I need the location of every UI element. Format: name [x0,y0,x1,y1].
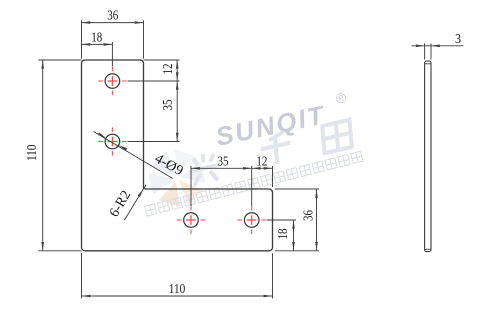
dimension 110 bottom: extension lines [81,253,83,298]
svg-text:36: 36 [107,9,118,24]
svg-text:35: 35 [161,100,176,111]
plate outline front view [82,60,273,251]
leader 6-R2 [124,185,146,221]
hole 1 (diam 9) [105,74,120,89]
dimension 36 top: extension lines [81,20,83,58]
dimension 35/12 above holes: extension lines [190,166,192,206]
svg-text:110: 110 [25,145,40,162]
dimension 110 left: dim line [42,60,44,251]
dimension 3 side view: extension lines [424,43,426,59]
svg-text:12: 12 [256,154,267,169]
hole 3 (diam 9) [184,213,199,228]
dimension 36 top: dim line [82,22,144,24]
svg-text:35: 35 [218,154,229,169]
dimension 12/35 right of arm: dim line [176,60,178,142]
svg-text:12: 12 [161,64,176,75]
watermark char xing [189,151,221,187]
dimension 110 bottom: dim line [82,295,273,297]
watermark registered mark [334,89,348,107]
leader 4-diam9 (diameter line through hole 2) [94,132,173,179]
side view bottom edge line [425,248,431,250]
watermark slogan line [145,151,363,216]
watermark SUNQIT text [213,99,328,152]
side view plate section [425,61,431,252]
dimension 110 left: extension lines [38,59,81,61]
watermark char tian [322,120,352,153]
dimension 36 right: extension lines [275,188,319,190]
side view top edge line [425,63,431,65]
dimension 12/35 right of arm: extension lines [144,59,180,61]
svg-text:110: 110 [169,282,186,297]
watermark logo pinwheel [145,144,209,211]
hole 2 (diam 9) [105,134,120,149]
dimension 18 right: dim line [293,220,295,251]
dimension 18 top: extension to hole 1 [111,42,113,66]
centerline hole 3 [177,206,205,234]
dimension 36 right: dim line [316,189,318,251]
dimension 18 right: extension line from hole 4 [267,219,297,221]
dimension 18 top: dim line [82,43,113,45]
hole 4 (diam 9) [244,213,259,228]
centerline hole 1 [98,67,126,95]
svg-text:3: 3 [455,32,461,47]
svg-text:18: 18 [276,229,291,240]
dimension 35/12 above holes: dim line [191,167,273,169]
watermark char qian [260,131,292,168]
dimension 3 side view: dim line [412,45,464,47]
svg-text:18: 18 [91,30,102,45]
centerline hole 2 [98,127,126,155]
centerline hole 4 [238,206,266,234]
svg-text:36: 36 [302,210,317,221]
